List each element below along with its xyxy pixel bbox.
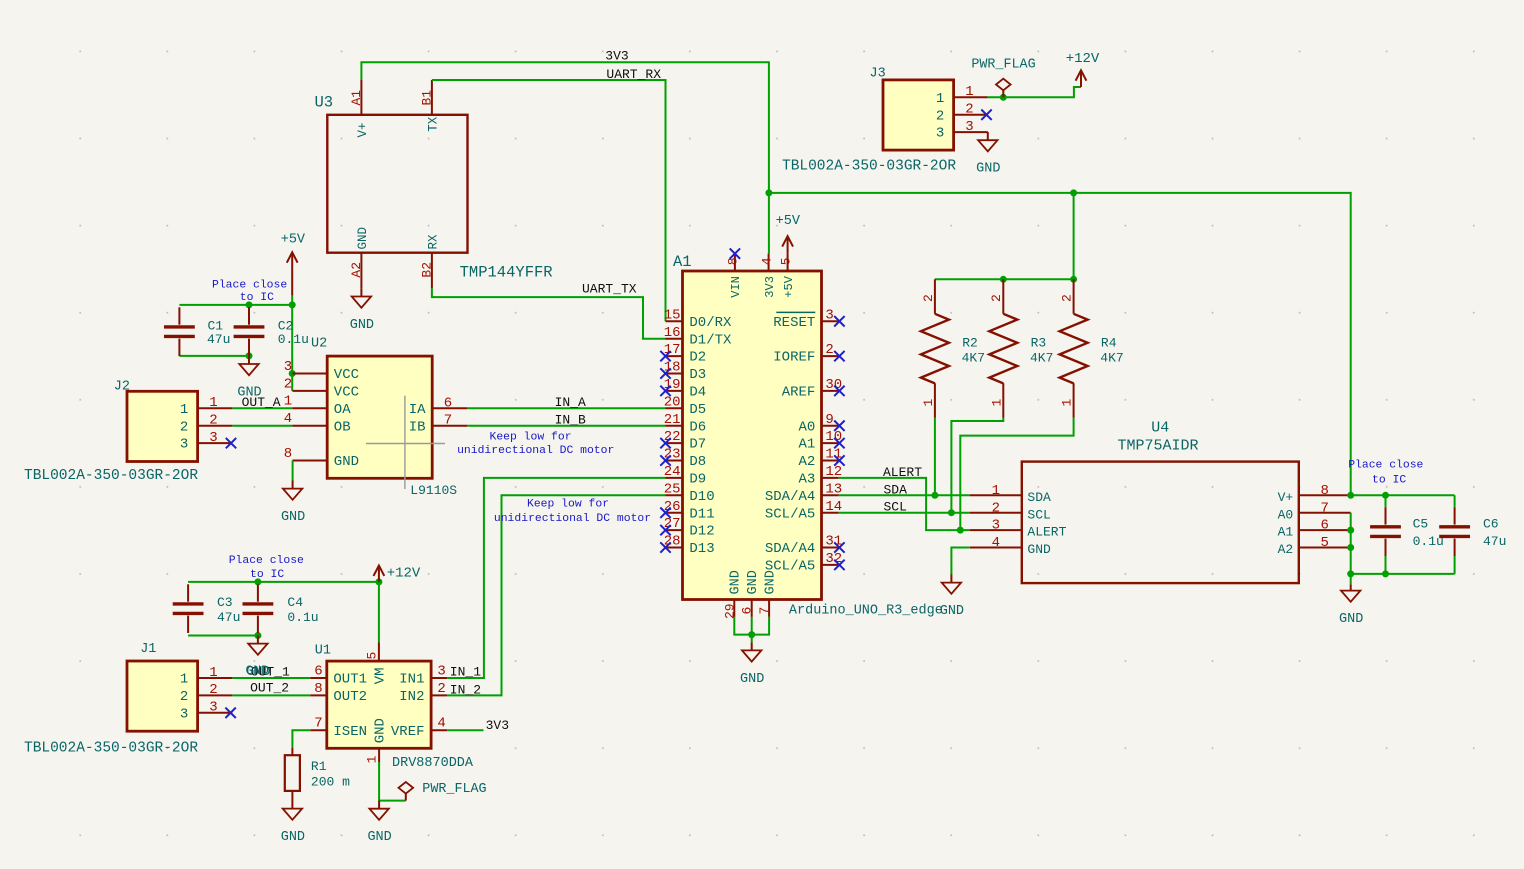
svg-text:TBL002A-350-03GR-2OR: TBL002A-350-03GR-2OR — [24, 468, 198, 484]
svg-text:TBL002A-350-03GR-2OR: TBL002A-350-03GR-2OR — [782, 159, 956, 175]
svg-text:GND: GND — [373, 718, 389, 743]
junction C4 bottom — [254, 632, 261, 639]
svg-text:R2: R2 — [962, 335, 978, 350]
ground below R1 — [281, 801, 305, 846]
svg-text:D9: D9 — [689, 472, 706, 488]
svg-text:OUT1: OUT1 — [333, 672, 367, 688]
ground below C2 — [237, 356, 261, 401]
svg-text:29: 29 — [722, 603, 737, 619]
wire U1 ISEN to R1 — [292, 730, 310, 748]
svg-text:RX: RX — [427, 234, 441, 250]
svg-text:0.1u: 0.1u — [278, 332, 309, 347]
junction 3V3 — [765, 189, 772, 196]
sensor U3 TMP144YFFR — [327, 80, 467, 288]
no-connect Arduino left pin 17 — [660, 351, 670, 361]
svg-text:GND: GND — [1339, 612, 1363, 627]
svg-text:GND: GND — [367, 830, 391, 845]
svg-text:8: 8 — [1320, 483, 1328, 499]
wire R3 bottom to SCL — [951, 418, 1003, 513]
junction VCC pin 3 — [289, 370, 296, 377]
power flag PWR_FLAG (top) — [996, 79, 1011, 98]
svg-text:VIN: VIN — [729, 276, 743, 298]
wire R2 bottom to SDA — [934, 418, 936, 496]
junction C2 bottom GND — [246, 352, 253, 359]
svg-text:A1: A1 — [349, 90, 364, 106]
no-connect Arduino right pin — [834, 455, 844, 465]
connector J3 TBL002A-350-03GR-2OR — [883, 80, 988, 150]
ground below U4 — [940, 575, 964, 620]
svg-text:3V3: 3V3 — [605, 48, 628, 63]
no-connect Arduino right pin — [834, 351, 844, 361]
no-connect Arduino right pin — [834, 386, 844, 396]
svg-text:3: 3 — [992, 518, 1000, 534]
svg-text:7: 7 — [444, 413, 452, 429]
svg-text:VM: VM — [372, 668, 388, 685]
svg-text:U2: U2 — [311, 337, 327, 352]
svg-text:D12: D12 — [689, 524, 714, 540]
temperature sensor U4 TMP75AIDR — [970, 462, 1351, 583]
no-connect Arduino left pin 26 — [660, 508, 670, 518]
svg-text:15: 15 — [664, 307, 681, 323]
svg-text:IN2: IN2 — [399, 689, 424, 705]
svg-text:47u: 47u — [207, 332, 230, 347]
svg-text:GND: GND — [356, 227, 370, 250]
ground below C5 C6 — [1339, 584, 1363, 627]
svg-text:A0: A0 — [798, 419, 815, 435]
wire SCL — [839, 512, 970, 514]
svg-text:C6: C6 — [1483, 516, 1499, 531]
svg-text:GND: GND — [746, 570, 761, 594]
svg-text:+5V: +5V — [782, 275, 796, 297]
junction PWR_FLAG — [1000, 94, 1007, 101]
svg-text:1: 1 — [1060, 399, 1075, 407]
svg-text:J3: J3 — [870, 67, 886, 82]
no-connect Arduino right pin — [834, 316, 844, 326]
svg-text:4: 4 — [437, 716, 445, 732]
svg-text:3: 3 — [825, 307, 833, 323]
svg-text:ISEN: ISEN — [333, 724, 367, 740]
svg-text:GND: GND — [334, 454, 359, 470]
no-connect Arduino left pin 19 — [660, 386, 670, 396]
wire J3 pin1 to +12V — [988, 87, 1081, 97]
svg-text:16: 16 — [664, 325, 681, 341]
svg-text:1: 1 — [365, 755, 380, 763]
resistor R2 4K7 — [921, 279, 949, 417]
svg-text:D6: D6 — [689, 419, 706, 435]
svg-text:A2: A2 — [1278, 542, 1294, 557]
svg-text:A3: A3 — [798, 472, 815, 488]
svg-text:Place close: Place close — [212, 279, 287, 291]
no-connect Arduino VIN — [730, 248, 740, 258]
no-connect Arduino left pin 23 — [660, 455, 670, 465]
svg-text:2: 2 — [825, 342, 833, 358]
svg-text:9: 9 — [825, 412, 833, 428]
wire IN_A from U2 IA to Arduino D5 — [467, 407, 666, 409]
svg-text:C1: C1 — [208, 318, 224, 333]
svg-text:2: 2 — [437, 681, 445, 697]
svg-text:3: 3 — [965, 119, 973, 135]
wire J1 pin1 OUT_1 to U1 OUT1 — [232, 677, 310, 679]
svg-text:2: 2 — [209, 413, 217, 429]
svg-text:3: 3 — [437, 663, 445, 679]
svg-text:3: 3 — [936, 126, 944, 142]
no-connect J1 pin 3 — [225, 708, 235, 718]
svg-text:IN_A: IN_A — [555, 395, 586, 410]
wire ALERT from Arduino A3 to U4 — [839, 478, 970, 530]
svg-text:2: 2 — [284, 376, 292, 392]
no-connect Arduino right pin — [834, 542, 844, 552]
svg-text:2: 2 — [921, 294, 936, 302]
wire +5V rail down to U2 VCC pins — [291, 296, 293, 391]
svg-text:+5V: +5V — [776, 214, 801, 229]
no-connect J3 pin 2 — [981, 110, 991, 120]
svg-text:Keep low for: Keep low for — [527, 499, 609, 511]
wire C5 C6 bottoms — [1351, 573, 1455, 575]
junction +12V VM — [375, 578, 382, 585]
svg-text:1: 1 — [209, 395, 217, 411]
svg-text:C4: C4 — [287, 595, 303, 610]
svg-text:R3: R3 — [1031, 335, 1047, 350]
svg-text:GND: GND — [976, 162, 1000, 177]
wire U4 A0 A1 A2 to GND bus — [1350, 513, 1352, 574]
junction R3 top — [1000, 276, 1007, 283]
svg-text:3: 3 — [180, 706, 188, 722]
svg-text:SCL: SCL — [884, 500, 907, 515]
svg-text:4K7: 4K7 — [1100, 351, 1123, 366]
svg-text:2: 2 — [936, 108, 944, 124]
svg-text:2: 2 — [965, 102, 973, 118]
wire J1 pin2 OUT_2 to U1 OUT2 — [232, 694, 310, 696]
svg-text:1: 1 — [180, 672, 188, 688]
svg-text:GND: GND — [281, 510, 305, 525]
svg-text:4: 4 — [992, 535, 1000, 551]
svg-text:ALERT: ALERT — [883, 465, 922, 480]
wire 3V3 from U3 V+ to Arduino 3V3 pin — [361, 62, 769, 253]
svg-text:47u: 47u — [1483, 534, 1506, 549]
svg-text:to IC: to IC — [1372, 475, 1406, 487]
svg-text:2: 2 — [992, 500, 1000, 516]
wire IN_B from U2 IB to Arduino D6 — [467, 425, 666, 427]
svg-text:V+: V+ — [356, 122, 370, 137]
svg-text:4: 4 — [759, 257, 774, 265]
svg-text:A2: A2 — [349, 262, 364, 278]
svg-text:6: 6 — [1320, 518, 1328, 534]
svg-text:A1: A1 — [673, 253, 692, 271]
svg-text:3V3: 3V3 — [486, 718, 509, 733]
svg-text:3: 3 — [209, 700, 217, 716]
svg-text:SDA/A4: SDA/A4 — [765, 489, 815, 505]
svg-text:47u: 47u — [217, 610, 240, 625]
svg-text:GND: GND — [350, 318, 374, 333]
svg-text:SCL/A5: SCL/A5 — [765, 506, 815, 522]
svg-text:U1: U1 — [315, 643, 331, 658]
svg-text:VREF: VREF — [391, 724, 425, 740]
capacitor — [164, 307, 195, 356]
svg-text:25: 25 — [664, 481, 681, 497]
junction R3-SCL — [948, 509, 955, 516]
resistor R3 4K7 — [989, 279, 1017, 417]
resistor R1 200m (shunt) — [285, 748, 300, 801]
wire C3 C4 bottoms — [188, 635, 258, 637]
svg-text:UART_TX: UART_TX — [582, 282, 637, 297]
svg-text:D1/TX: D1/TX — [689, 332, 732, 348]
svg-text:J1: J1 — [140, 642, 156, 657]
svg-text:OUT_A: OUT_A — [242, 395, 281, 410]
junction Arduino GND — [748, 631, 755, 638]
junction R2-SDA — [931, 492, 938, 499]
svg-text:DRV8870DDA: DRV8870DDA — [392, 756, 474, 771]
wire U1 VREF to 3V3 — [447, 729, 483, 731]
ground — [350, 288, 374, 333]
junction C5 top — [1382, 492, 1389, 499]
svg-text:U3: U3 — [315, 94, 334, 112]
svg-text:20: 20 — [664, 394, 681, 410]
svg-text:J2: J2 — [114, 380, 130, 395]
no-connect Arduino left pin 27 — [660, 525, 670, 535]
svg-text:SDA: SDA — [884, 482, 908, 497]
svg-text:0.1u: 0.1u — [287, 610, 318, 625]
svg-text:IN_2: IN_2 — [450, 682, 481, 697]
svg-text:GND: GND — [763, 570, 778, 594]
svg-text:4K7: 4K7 — [1030, 351, 1053, 366]
svg-text:21: 21 — [664, 412, 681, 428]
ground at J3 pin 3 — [976, 132, 1000, 177]
svg-text:1: 1 — [209, 665, 217, 681]
svg-text:UART_RX: UART_RX — [606, 67, 661, 82]
svg-text:SCL: SCL — [1027, 507, 1050, 522]
power +5V symbol (left) — [287, 252, 298, 295]
svg-text:1: 1 — [989, 399, 1004, 407]
svg-text:4K7: 4K7 — [962, 351, 985, 366]
wire C6 top — [1454, 495, 1456, 507]
no-connect Arduino left pin 18 — [660, 368, 670, 378]
svg-text:GND: GND — [1027, 542, 1051, 557]
wire U1 GND to ground and PWR_FLAG — [379, 762, 406, 801]
svg-text:Arduino_UNO_R3_edge: Arduino_UNO_R3_edge — [789, 604, 943, 619]
svg-text:TBL002A-350-03GR-2OR: TBL002A-350-03GR-2OR — [24, 741, 198, 757]
no-connect Arduino left pin 22 — [660, 438, 670, 448]
junction C4 top — [254, 578, 261, 585]
capacitor — [234, 307, 265, 356]
svg-text:2: 2 — [1060, 294, 1075, 302]
svg-text:D4: D4 — [689, 385, 706, 401]
svg-text:1: 1 — [992, 483, 1000, 499]
svg-text:GND: GND — [729, 570, 744, 594]
wire +12V to C3 C4 tops and U1 VM — [188, 581, 379, 583]
wire U4 GND down — [951, 548, 969, 575]
svg-text:A0: A0 — [1278, 507, 1294, 522]
wire IN_1 from Arduino D9 to U1 IN1 — [447, 478, 665, 678]
svg-text:5: 5 — [778, 257, 793, 265]
svg-text:RESET: RESET — [773, 315, 815, 331]
svg-text:8: 8 — [284, 446, 292, 462]
no-connect J2 pin 3 — [226, 438, 236, 448]
svg-text:2: 2 — [989, 294, 1004, 302]
svg-text:A2: A2 — [798, 454, 815, 470]
motor driver U1 DRV8870DDA — [310, 643, 447, 764]
R2 body — [921, 314, 949, 384]
svg-text:Place close: Place close — [229, 555, 304, 567]
capacitor — [173, 584, 204, 633]
svg-text:AREF: AREF — [782, 385, 816, 401]
wire SDA — [839, 494, 970, 496]
svg-text:6: 6 — [444, 395, 452, 411]
svg-text:1: 1 — [965, 84, 973, 100]
svg-text:D3: D3 — [689, 367, 706, 383]
ground below C4 — [246, 636, 270, 681]
junction V+ C5C6 — [1347, 492, 1354, 499]
svg-text:IN1: IN1 — [399, 672, 424, 688]
wire V+ to C5 C6 tops — [1351, 494, 1455, 496]
svg-text:1: 1 — [180, 402, 188, 418]
svg-text:TX: TX — [427, 116, 441, 132]
svg-text:OB: OB — [334, 419, 351, 435]
wire +5V to C1 C2 tops — [179, 304, 292, 306]
svg-text:0.1u: 0.1u — [1413, 534, 1444, 549]
wire C1 C2 bottoms to GND — [179, 355, 249, 357]
svg-text:200 m: 200 m — [311, 775, 350, 790]
svg-text:unidirectional DC motor: unidirectional DC motor — [457, 445, 614, 457]
power +12V symbol at U1 — [374, 566, 385, 582]
wire C6 bottom — [1454, 556, 1456, 574]
wire C5 bottom — [1385, 556, 1387, 574]
svg-text:1: 1 — [936, 91, 944, 107]
svg-text:D11: D11 — [689, 506, 714, 522]
junction +5V rail — [289, 301, 296, 308]
connector J2 TBL002A-350-03GR-2OR — [127, 391, 232, 461]
svg-text:D5: D5 — [689, 402, 706, 418]
svg-text:L9110S: L9110S — [410, 483, 457, 498]
svg-text:B2: B2 — [420, 262, 435, 278]
wire UART_TX from U3 RX to Arduino D1/TX — [432, 288, 666, 339]
ground below U1 — [367, 801, 391, 846]
svg-text:2: 2 — [180, 419, 188, 435]
svg-text:VCC: VCC — [334, 385, 359, 401]
wire Arduino GND pins bus — [734, 617, 769, 635]
svg-text:SDA/A4: SDA/A4 — [765, 541, 815, 557]
resistor R4 4K7 — [1060, 279, 1088, 417]
junction A1 row — [1347, 527, 1354, 534]
svg-text:R4: R4 — [1101, 335, 1117, 350]
svg-text:D2: D2 — [689, 350, 706, 366]
capacitor — [243, 584, 274, 633]
R4 body — [1060, 314, 1088, 384]
svg-text:GND: GND — [940, 604, 964, 619]
wire Arduino GND center pin — [751, 617, 753, 642]
junction R4-ALERT — [957, 527, 964, 534]
no-connect Arduino right pin — [834, 560, 844, 570]
svg-text:1: 1 — [921, 399, 936, 407]
svg-text:SDA: SDA — [1027, 490, 1051, 505]
wire +12V to U1 VM — [378, 582, 380, 643]
ground below Arduino — [740, 642, 764, 687]
svg-text:3: 3 — [284, 359, 292, 375]
svg-text:OUT_2: OUT_2 — [250, 681, 289, 696]
no-connect Arduino right pin — [834, 438, 844, 448]
svg-text:D10: D10 — [689, 489, 714, 505]
svg-text:5: 5 — [365, 652, 380, 660]
svg-text:2: 2 — [209, 682, 217, 698]
wire U2 GND pin down — [292, 461, 294, 481]
svg-text:V+: V+ — [1278, 490, 1294, 505]
svg-text:+5V: +5V — [281, 232, 306, 247]
svg-text:IN_B: IN_B — [555, 412, 586, 427]
wire UART_RX from U3 TX to Arduino D0/RX — [432, 80, 666, 321]
power +12V symbol (top right) — [1076, 70, 1087, 87]
svg-text:A1: A1 — [798, 437, 815, 453]
junction A2 row — [1347, 544, 1354, 551]
capacitor — [1439, 507, 1470, 556]
no-connect Arduino left pin 28 — [660, 542, 670, 552]
svg-text:Keep low for: Keep low for — [490, 432, 572, 444]
svg-text:3: 3 — [180, 437, 188, 453]
motor driver U2 L9110S — [284, 356, 467, 489]
capacitor — [1370, 507, 1401, 556]
svg-text:3V3: 3V3 — [763, 276, 777, 298]
wire R4 bottom to ALERT — [960, 418, 1073, 531]
svg-text:D0/RX: D0/RX — [689, 315, 732, 331]
svg-text:IA: IA — [409, 402, 426, 418]
svg-text:1: 1 — [284, 394, 292, 410]
svg-text:OUT2: OUT2 — [333, 689, 367, 705]
svg-text:A1: A1 — [1278, 525, 1294, 540]
power +5V symbol at Arduino — [782, 236, 793, 253]
svg-text:6: 6 — [740, 607, 755, 615]
junction C5 bottom — [1382, 570, 1389, 577]
svg-text:7: 7 — [1320, 500, 1328, 516]
power flag PWR_FLAG (bottom) — [399, 782, 414, 801]
svg-text:C5: C5 — [1413, 516, 1429, 531]
svg-text:24: 24 — [664, 464, 681, 480]
svg-text:PWR_FLAG: PWR_FLAG — [422, 782, 486, 797]
connector J1 TBL002A-350-03GR-2OR — [127, 661, 232, 731]
svg-text:TMP144YFFR: TMP144YFFR — [460, 264, 553, 282]
svg-text:U4: U4 — [1151, 420, 1169, 437]
svg-text:2: 2 — [180, 689, 188, 705]
svg-text:6: 6 — [314, 663, 322, 679]
junction GND bus left — [1347, 570, 1354, 577]
svg-text:Place close: Place close — [1348, 460, 1423, 472]
svg-text:C2: C2 — [278, 318, 294, 333]
wire 3V3 drop to pull-ups — [1073, 193, 1075, 279]
svg-text:+12V: +12V — [1066, 51, 1100, 67]
svg-text:B1: B1 — [420, 90, 435, 106]
svg-text:5: 5 — [1320, 535, 1328, 551]
svg-text:R1: R1 — [311, 759, 327, 774]
svg-text:OA: OA — [334, 402, 351, 418]
svg-text:GND: GND — [281, 830, 305, 845]
svg-text:to IC: to IC — [240, 292, 274, 304]
junction R4 top — [1070, 276, 1077, 283]
wire pull-up top bus — [935, 278, 1074, 280]
svg-text:GND: GND — [740, 672, 764, 687]
svg-text:D7: D7 — [689, 437, 706, 453]
svg-text:GND: GND — [246, 663, 270, 678]
board A1 Arduino_UNO_R3_edge — [664, 254, 843, 619]
svg-text:7: 7 — [314, 716, 322, 732]
svg-text:IB: IB — [409, 419, 426, 435]
wire to ground below C5 C6 — [1350, 574, 1352, 584]
no-connect Arduino right pin — [834, 421, 844, 431]
svg-text:7: 7 — [757, 607, 772, 615]
ground below U2 — [281, 481, 305, 526]
svg-text:8: 8 — [314, 681, 322, 697]
svg-text:IOREF: IOREF — [773, 350, 815, 366]
svg-text:3: 3 — [209, 430, 217, 446]
svg-text:+12V: +12V — [387, 565, 421, 581]
svg-text:unidirectional DC motor: unidirectional DC motor — [494, 513, 651, 525]
svg-text:IN_1: IN_1 — [450, 664, 481, 679]
